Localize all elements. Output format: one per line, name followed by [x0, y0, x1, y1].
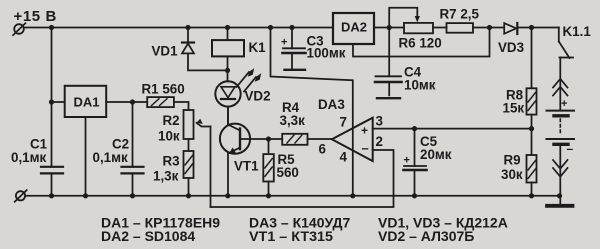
svg-text:DA1: DA1: [74, 95, 100, 110]
svg-text:0,1мк: 0,1мк: [93, 150, 129, 165]
svg-text:7: 7: [340, 115, 347, 130]
svg-text:+15 В: +15 В: [14, 8, 57, 25]
svg-text:560: 560: [277, 165, 299, 180]
svg-text:VD3: VD3: [498, 40, 524, 55]
svg-text:DA3: DA3: [318, 97, 345, 112]
svg-text:R1 560: R1 560: [142, 82, 185, 97]
svg-text:–: –: [567, 142, 574, 156]
svg-text:–: –: [362, 141, 369, 156]
svg-text:R2: R2: [163, 113, 180, 128]
svg-text:R3: R3: [163, 154, 180, 169]
svg-text:1,3к: 1,3к: [153, 169, 179, 184]
svg-text:100мк: 100мк: [307, 46, 346, 61]
svg-text:VT1: VT1: [234, 159, 259, 174]
svg-text:R9: R9: [504, 153, 521, 168]
svg-text:VD1: VD1: [152, 44, 179, 59]
svg-text:30к: 30к: [501, 167, 523, 182]
svg-text:+: +: [281, 37, 287, 49]
svg-text:15к: 15к: [503, 101, 525, 116]
svg-text:10к: 10к: [158, 129, 180, 144]
svg-text:VD2: VD2: [245, 89, 271, 104]
svg-text:6: 6: [319, 142, 326, 157]
svg-text:VD2 – АЛ307Б: VD2 – АЛ307Б: [378, 228, 474, 244]
svg-text:R6 120: R6 120: [399, 36, 442, 51]
svg-text:4: 4: [340, 150, 348, 165]
svg-text:VT1 – КТ315: VT1 – КТ315: [249, 228, 333, 244]
svg-text:0,1мк: 0,1мк: [11, 150, 47, 165]
svg-text:K1: K1: [249, 40, 267, 55]
svg-text:10мк: 10мк: [404, 78, 436, 93]
svg-text:DA2 – SD1084: DA2 – SD1084: [101, 228, 195, 244]
svg-text:K1.1: K1.1: [563, 24, 592, 39]
svg-text:DA2: DA2: [341, 20, 367, 35]
svg-text:+: +: [361, 124, 368, 138]
svg-text:3,3к: 3,3к: [280, 113, 306, 128]
svg-text:+: +: [404, 155, 410, 167]
svg-text:3: 3: [376, 114, 383, 129]
svg-text:+: +: [561, 98, 567, 110]
svg-text:2: 2: [376, 134, 383, 149]
svg-text:R7 2,5: R7 2,5: [440, 7, 480, 22]
svg-text:20мк: 20мк: [420, 147, 452, 162]
